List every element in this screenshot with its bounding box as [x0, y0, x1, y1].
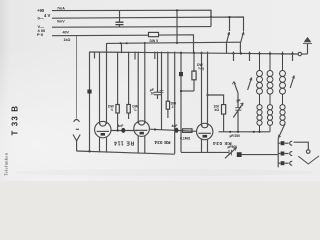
capacitor C1 block — [87, 90, 91, 94]
wire main bus — [90, 52, 299, 54]
tube V1 — [95, 121, 111, 137]
svg-text:T 33 B: T 33 B — [10, 105, 19, 136]
node J1 — [210, 16, 212, 18]
label tube V3 type — [213, 140, 232, 146]
paper background — [0, 0, 320, 181]
svg-text:P·0: P·0 — [37, 32, 44, 37]
labels group — [37, 6, 241, 149]
svg-text:Telefunken: Telefunken — [4, 152, 9, 176]
wire tube3 legs — [202, 139, 208, 152]
wire to selector — [242, 154, 279, 156]
label tube V2 type — [154, 139, 170, 145]
svg-text:μF/250: μF/250 — [230, 134, 241, 138]
capacitor C7 between L1 and L3 — [116, 10, 124, 26]
wire column K8 tube2 lead — [137, 52, 139, 124]
capacitor C4 grid — [121, 128, 125, 133]
label 7mA — [57, 6, 65, 10]
svg-text:RE 034: RE 034 — [154, 139, 170, 145]
wire column K2 tube1 lead — [99, 52, 101, 124]
headphone symbol — [298, 156, 319, 164]
tube V3 — [197, 123, 213, 139]
capacitor C2 — [154, 52, 161, 99]
wire column K10 — [160, 52, 164, 131]
label C2 value — [150, 88, 155, 95]
coil L3b — [280, 105, 285, 126]
coil L2a — [267, 52, 273, 105]
wire column K11 — [167, 52, 169, 102]
svg-text:0—: 0— — [38, 16, 44, 21]
label R1 value — [108, 105, 114, 113]
coil L1b — [257, 105, 262, 132]
node J8 — [154, 128, 156, 130]
label R5 value — [214, 105, 220, 113]
wire selector stem — [277, 138, 279, 167]
wire column K15 tube3 lead — [201, 52, 203, 127]
svg-text:4nF: 4nF — [172, 124, 178, 128]
wire column K7 stub — [134, 52, 136, 60]
label anode cap value — [230, 134, 241, 138]
tube V2 — [134, 121, 150, 137]
svg-text:kΩ: kΩ — [215, 108, 220, 112]
wire grid link V2-V3 — [149, 129, 196, 131]
capacitor C3 block — [179, 72, 183, 76]
switch S1 — [240, 32, 244, 54]
label terminal +90 — [37, 8, 50, 18]
svg-text:4nF: 4nF — [118, 124, 124, 128]
wire riser A — [176, 10, 178, 43]
switch S3 — [232, 52, 238, 93]
label terminal -4 — [38, 24, 47, 33]
resistor R1 — [116, 105, 119, 131]
resistor R2 — [127, 105, 130, 120]
resistor R6 on L4 — [149, 32, 194, 53]
label DW5 — [150, 39, 159, 43]
wiper arm W1 — [294, 142, 309, 150]
wire anode link — [208, 95, 224, 105]
svg-text:RE 114: RE 114 — [113, 139, 134, 145]
resistor R7 grid leak — [183, 129, 193, 133]
wire tube2 legs — [138, 136, 145, 153]
label R3 value — [171, 102, 177, 110]
svg-text:7mA: 7mA — [57, 6, 65, 10]
switch S2 — [226, 17, 230, 54]
variable capacitor VC2 — [225, 148, 236, 159]
terminal T1 — [298, 52, 307, 55]
label C4 value — [118, 124, 124, 128]
label 1k — [64, 38, 71, 42]
resistor R4 — [192, 71, 196, 91]
svg-text:RE 034: RE 034 — [213, 140, 232, 146]
earth symbol E1 — [303, 37, 312, 54]
resistor R3 — [166, 101, 169, 118]
svg-text:0,1MΩ: 0,1MΩ — [180, 136, 191, 140]
wire grid link V1-V2 — [111, 130, 138, 132]
svg-text:10: 10 — [151, 91, 155, 95]
wire VC2 row — [208, 151, 229, 153]
coil L2b — [267, 105, 272, 132]
node J3 — [176, 9, 178, 44]
wire L3 supply line — [52, 10, 211, 27]
switch S6 wave change — [278, 124, 285, 138]
svg-text:½ q: ½ q — [198, 67, 204, 71]
resistor R5 — [222, 105, 226, 132]
wire column K4 — [117, 52, 119, 105]
wire tube1 legs — [100, 137, 107, 152]
capacitor C5 grid — [175, 128, 179, 133]
label 0mV — [57, 20, 65, 24]
wire column K12 — [174, 52, 176, 154]
label terminal P0 — [37, 32, 44, 37]
wire column K5 — [121, 43, 123, 53]
node J2 — [228, 16, 230, 18]
wire filament line — [107, 42, 242, 43]
svg-text:0mV: 0mV — [57, 20, 65, 24]
wire L1 supply line — [52, 10, 211, 17]
svg-text:2: 2 — [172, 105, 174, 109]
capacitor C8c — [278, 161, 292, 165]
node J4 — [120, 42, 146, 44]
node J9 — [88, 150, 90, 152]
plug P1 — [74, 120, 80, 130]
wire column K1 — [89, 52, 91, 153]
terminal T2 — [306, 150, 310, 154]
wire column K13 — [180, 52, 182, 153]
wire column K9b stub — [154, 52, 156, 59]
wire column K1b stub — [94, 52, 96, 59]
label tube V1 type — [113, 139, 134, 145]
svg-text:4 V: 4 V — [44, 13, 50, 18]
svg-text:½: ½ — [111, 108, 114, 112]
antenna A1 — [73, 135, 80, 152]
label VC2 value — [228, 145, 238, 149]
label R7 value — [180, 136, 191, 140]
label terminal 0 — [38, 16, 44, 21]
label R4 value — [197, 63, 204, 71]
svg-text:40V: 40V — [63, 31, 70, 35]
brand title — [4, 105, 20, 176]
coil L1a — [257, 52, 263, 105]
switch S5 — [290, 52, 294, 88]
node J5 — [180, 90, 182, 92]
node J10 — [229, 131, 261, 133]
label VC1 value — [237, 99, 241, 103]
wire R4 link — [181, 90, 194, 92]
wire anode tank — [219, 131, 271, 133]
label 40V — [63, 31, 70, 35]
node J6 — [206, 94, 208, 96]
wire L2 supply line — [52, 17, 244, 32]
wire column K9 tube2 lead — [144, 43, 146, 124]
wire column K6 — [128, 52, 130, 105]
label R2 value — [132, 105, 138, 113]
node J7 — [117, 129, 119, 131]
capacitor C8a — [278, 141, 292, 145]
variable capacitor VC1 — [233, 93, 243, 132]
wire column K3 tube1 lead — [106, 43, 108, 124]
wire bottom rail left — [77, 151, 175, 154]
svg-text:DW 5: DW 5 — [150, 39, 159, 43]
capacitor C8b — [278, 152, 292, 156]
coil L3a — [280, 52, 286, 105]
wire bottom rail right — [181, 151, 208, 153]
node bus junctions — [180, 52, 294, 55]
label C5 value — [172, 124, 178, 128]
antenna feed column — [76, 36, 78, 119]
svg-text:μF: μF — [237, 99, 241, 103]
svg-text:1kΩ: 1kΩ — [64, 38, 71, 42]
switch S4 — [248, 52, 252, 90]
wire column K16 tube3 lead — [207, 52, 209, 127]
capacitor C6 block — [237, 152, 242, 157]
wire column K14 — [193, 52, 195, 72]
wire L4 supply line — [52, 34, 149, 37]
